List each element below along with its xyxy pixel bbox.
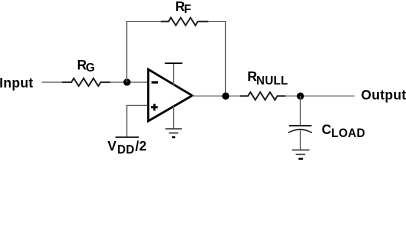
wire R_G to inverting input	[110, 81, 147, 83]
wire positive supply vertical	[173, 63, 175, 85]
resistor R_NULL	[240, 92, 286, 100]
positive supply rail bar	[165, 62, 183, 64]
wire op-amp ground vertical	[173, 106, 175, 129]
wire feedback top right segment	[208, 21, 226, 23]
op-amp minus sign	[152, 81, 159, 83]
svg-text:LOAD: LOAD	[331, 127, 365, 140]
svg-text:C: C	[322, 122, 332, 137]
wire feedback left vertical	[126, 22, 128, 83]
node B junction dot	[222, 93, 229, 100]
wire V_DD/2 vertical	[126, 105, 128, 137]
svg-text:F: F	[184, 3, 191, 16]
ground C_LOAD	[292, 149, 310, 151]
svg-text:V: V	[108, 138, 117, 153]
wire op-amp output	[192, 95, 241, 97]
svg-text:DD: DD	[117, 143, 134, 156]
svg-text:NULL: NULL	[256, 75, 288, 88]
wire C_LOAD bottom lead	[299, 130, 301, 150]
op-amp plus sign	[151, 106, 158, 108]
resistor R_G	[62, 78, 110, 86]
wire plus input horizontal	[126, 104, 147, 106]
svg-text:G: G	[86, 62, 95, 75]
svg-text:/2: /2	[135, 138, 147, 153]
node C junction dot	[297, 93, 304, 100]
capacitor C_LOAD	[289, 125, 312, 127]
wire feedback top left segment	[126, 21, 161, 23]
ground op-amp	[165, 128, 182, 130]
resistor R_F	[161, 18, 209, 26]
V_DD/2 rail bar	[115, 136, 138, 138]
wire feedback right vertical	[225, 22, 227, 97]
wire input to R_G	[42, 81, 63, 83]
node A junction dot	[123, 79, 130, 86]
wire C_LOAD top lead	[299, 96, 301, 126]
wire R_NULL to output	[286, 95, 355, 97]
svg-text:Output: Output	[361, 87, 406, 102]
svg-text:Input: Input	[0, 75, 34, 90]
op-amp U1 triangle	[148, 69, 192, 121]
